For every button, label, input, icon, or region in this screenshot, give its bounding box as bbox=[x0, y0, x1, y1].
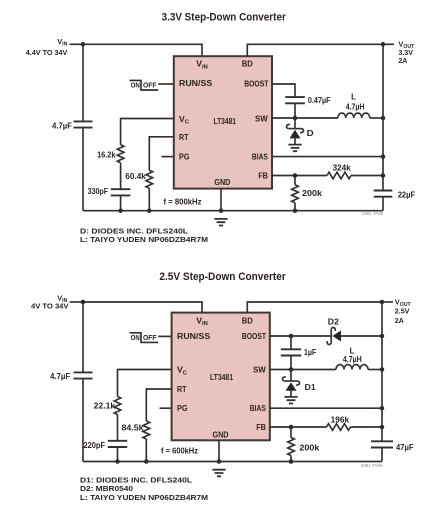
svg-text:BOOST: BOOST bbox=[244, 79, 269, 89]
wire FB left 2 bbox=[270, 426, 327, 428]
wire 22.1k to 220pF bbox=[117, 415, 119, 441]
ground D1 bbox=[284, 397, 297, 404]
svg-text:BIAS: BIAS bbox=[252, 152, 268, 162]
svg-text:2A: 2A bbox=[395, 316, 405, 325]
svg-text:4.7µF: 4.7µF bbox=[52, 122, 72, 131]
capacitor 330pF bbox=[111, 189, 131, 195]
resistor 22.1k bbox=[114, 397, 121, 415]
wire RT 2 bbox=[146, 389, 171, 421]
svg-text:324k: 324k bbox=[333, 163, 352, 172]
wire L to VOUT rail bbox=[370, 117, 383, 119]
svg-text:L: L bbox=[351, 92, 356, 101]
svg-text:0.47µF: 0.47µF bbox=[308, 96, 331, 105]
svg-text:4.7µF: 4.7µF bbox=[50, 372, 70, 381]
svg-text:FB: FB bbox=[258, 171, 268, 181]
wire VIN left rail upper 2 bbox=[82, 302, 84, 372]
node VIN input 2 bbox=[81, 300, 86, 305]
svg-text:1µF: 1µF bbox=[304, 348, 317, 357]
svg-text:PG: PG bbox=[177, 403, 188, 413]
wire VOUT stub 2 bbox=[382, 301, 393, 303]
node SW out 2 bbox=[380, 367, 385, 372]
node RT rail bbox=[147, 208, 152, 213]
svg-text:RT: RT bbox=[177, 384, 187, 394]
capacitor 220pF bbox=[108, 441, 127, 447]
svg-text:BIAS: BIAS bbox=[250, 403, 266, 413]
capacitor 0.47uF boost bbox=[285, 97, 305, 103]
node VOUT top 2 bbox=[380, 300, 385, 305]
wire boost cap lower bbox=[290, 356, 292, 370]
wire 16.2k to 330pF bbox=[120, 163, 122, 189]
svg-text:60.4k: 60.4k bbox=[125, 172, 146, 181]
node SW out bbox=[381, 116, 386, 121]
node BIAS 2 bbox=[380, 406, 385, 411]
svg-text:84.5k: 84.5k bbox=[122, 424, 145, 433]
svg-text:4.7µH: 4.7µH bbox=[343, 355, 362, 364]
svg-text:f = 600kHz: f = 600kHz bbox=[161, 447, 198, 456]
wire VIN left rail lower bbox=[82, 128, 84, 211]
svg-text:3481 TA05: 3481 TA05 bbox=[362, 211, 384, 216]
node FB out bbox=[381, 173, 386, 178]
wire VIN top rail 2 bbox=[83, 302, 202, 313]
svg-text:BD: BD bbox=[242, 315, 253, 325]
wire SW bbox=[272, 117, 338, 119]
capacitor 1uF boost bbox=[281, 349, 301, 355]
wire 84.5k to rail bbox=[145, 439, 147, 462]
wire VIN stub 2 bbox=[70, 301, 84, 303]
node SW boost bbox=[293, 116, 298, 121]
wire bottom rail 2 bbox=[83, 461, 382, 463]
wire FB to 200k 2 bbox=[290, 427, 292, 438]
switch label ON/OFF 2 bbox=[130, 333, 159, 343]
wire FB to 200k bbox=[294, 176, 296, 185]
wire VIN stub bbox=[70, 43, 84, 45]
svg-text:ON: ON bbox=[131, 80, 140, 89]
svg-text:4.4V TO 34V: 4.4V TO 34V bbox=[26, 48, 68, 57]
svg-text:D: D bbox=[307, 129, 314, 138]
wire 200k to rail bbox=[294, 203, 296, 211]
svg-text:RUN/SS: RUN/SS bbox=[177, 331, 210, 341]
wire VOUT rail bbox=[382, 44, 384, 190]
svg-text:2.5V: 2.5V bbox=[395, 307, 410, 316]
wire RT bbox=[149, 137, 174, 171]
wire VC to RC network 2 bbox=[118, 370, 172, 397]
svg-text:47µF: 47µF bbox=[396, 443, 414, 452]
diode D catch bbox=[287, 118, 304, 145]
svg-text:196k: 196k bbox=[331, 415, 350, 424]
svg-text:4V TO 34V: 4V TO 34V bbox=[31, 301, 69, 310]
wire 47uF to rail bbox=[381, 448, 383, 462]
ground GND pin bbox=[214, 219, 227, 226]
svg-text:BOOST: BOOST bbox=[242, 331, 267, 341]
svg-text:4.7µH: 4.7µH bbox=[346, 102, 365, 111]
node D2 out bbox=[380, 334, 385, 339]
wire VC to RC network bbox=[121, 119, 174, 145]
wire PG stub bbox=[162, 156, 174, 158]
diode D1 catch bbox=[283, 370, 300, 397]
wire 60.4k to rail bbox=[148, 188, 150, 210]
svg-text:OFF: OFF bbox=[143, 333, 157, 342]
resistor 60.4k bbox=[146, 170, 153, 188]
wire RUN/SS bbox=[158, 83, 174, 85]
wire 220pF to rail 2 bbox=[117, 447, 119, 462]
node 200k rail 2 bbox=[289, 459, 294, 464]
wire 200k to rail 2 bbox=[290, 456, 292, 462]
IC U2 LT3481 bbox=[172, 313, 270, 441]
diode D2 boost bbox=[327, 328, 341, 345]
svg-text:RT: RT bbox=[179, 132, 189, 142]
wire VOUT rail 2 bbox=[381, 302, 383, 441]
node VOUT top bbox=[381, 42, 386, 47]
svg-text:f = 800kHz: f = 800kHz bbox=[164, 197, 202, 206]
svg-text:OFF: OFF bbox=[143, 81, 157, 90]
wire FB left bbox=[272, 175, 327, 177]
IC U1 LT3481 bbox=[174, 56, 272, 188]
wire bottom rail bbox=[83, 210, 383, 212]
wire FB right bbox=[351, 175, 383, 177]
wire VIN left rail lower 2 bbox=[82, 379, 84, 462]
capacitor 47uF output bbox=[371, 441, 393, 447]
node FB out 2 bbox=[380, 425, 385, 430]
node FB 2 bbox=[289, 425, 294, 430]
svg-text:LT3481: LT3481 bbox=[210, 372, 233, 382]
node BOOST junction bbox=[289, 334, 294, 339]
wire boost cap to SW bbox=[294, 103, 296, 118]
wire BIAS 2 bbox=[270, 407, 382, 409]
resistor 200k 2 bbox=[288, 438, 295, 456]
resistor 196k bbox=[327, 424, 351, 431]
switch label ON/OFF bbox=[130, 80, 159, 90]
node VC rail bbox=[118, 208, 123, 213]
wire L to VOUT rail 2 bbox=[368, 369, 382, 371]
wire boost junction to D2 bbox=[291, 335, 331, 337]
node 200k rail bbox=[293, 208, 298, 213]
capacitor 22uF output bbox=[374, 191, 393, 197]
svg-text:220pF: 220pF bbox=[84, 441, 106, 450]
ground D bbox=[288, 145, 301, 152]
node BIAS bbox=[381, 154, 386, 159]
wire BOOST 2 bbox=[270, 335, 291, 337]
svg-text:PG: PG bbox=[179, 152, 190, 162]
svg-text:SW: SW bbox=[255, 113, 269, 123]
svg-text:2.5V Step-Down Converter: 2.5V Step-Down Converter bbox=[159, 271, 286, 283]
wire SW 2 bbox=[270, 369, 336, 371]
capacitor 4.7uF input 2 bbox=[74, 372, 93, 378]
node RT rail 2 bbox=[144, 459, 149, 464]
wire GND pin 2 bbox=[218, 440, 220, 461]
wire BIAS bbox=[272, 156, 383, 158]
svg-text:D2: MBR0540: D2: MBR0540 bbox=[80, 484, 133, 493]
wire FB right 2 bbox=[351, 426, 383, 428]
resistor 16.2k bbox=[117, 145, 124, 163]
svg-text:16.2k: 16.2k bbox=[97, 151, 116, 160]
svg-text:D2: D2 bbox=[328, 318, 340, 327]
ground GND pin 2 bbox=[212, 470, 225, 477]
resistor 324k bbox=[327, 172, 351, 179]
svg-text:SW: SW bbox=[253, 365, 267, 375]
wire boost cap upper bbox=[290, 336, 292, 349]
svg-text:FB: FB bbox=[256, 422, 266, 432]
svg-text:200k: 200k bbox=[302, 189, 323, 198]
wire BD to VOUT 2 bbox=[247, 302, 382, 313]
node GND rail 2 bbox=[217, 459, 222, 464]
resistor 84.5k bbox=[143, 421, 150, 439]
svg-text:BD: BD bbox=[242, 59, 253, 69]
svg-text:200k: 200k bbox=[299, 443, 320, 452]
wire PG stub 2 bbox=[160, 407, 172, 409]
node FB bbox=[293, 173, 298, 178]
wire GND pin bbox=[220, 189, 222, 211]
wire 22uF to rail bbox=[382, 197, 384, 211]
inductor L 4.7uH 2 bbox=[336, 365, 368, 370]
svg-text:22µF: 22µF bbox=[398, 190, 416, 199]
svg-text:ON: ON bbox=[131, 333, 140, 342]
svg-text:3481 TA06: 3481 TA06 bbox=[361, 463, 383, 468]
capacitor 4.7uF input bbox=[74, 121, 93, 127]
svg-text:GND: GND bbox=[214, 177, 230, 187]
node VIN input bbox=[81, 42, 86, 47]
svg-text:L: TAIYO YUDEN NP06DZB4R7M: L: TAIYO YUDEN NP06DZB4R7M bbox=[80, 235, 208, 244]
resistor 200k bbox=[292, 185, 299, 203]
svg-text:LT3481: LT3481 bbox=[214, 116, 237, 126]
svg-text:2A: 2A bbox=[398, 56, 408, 65]
wire RUN/SS 2 bbox=[158, 335, 171, 337]
wire D2 to VOUT rail bbox=[341, 335, 382, 337]
wire VIN left rail upper bbox=[82, 44, 84, 121]
node SW boost 2 bbox=[289, 367, 294, 372]
wire VIN top rail bbox=[83, 44, 202, 56]
wire 330pF to rail bbox=[120, 195, 122, 210]
svg-text:22.1k: 22.1k bbox=[94, 402, 116, 411]
inductor L 4.7uH bbox=[338, 113, 370, 118]
wire BD to VOUT bbox=[247, 44, 383, 56]
svg-text:3.3V Step-Down Converter: 3.3V Step-Down Converter bbox=[162, 11, 287, 23]
wire VOUT stub bbox=[383, 43, 394, 45]
svg-text:330pF: 330pF bbox=[88, 187, 109, 196]
svg-text:D1: D1 bbox=[305, 383, 317, 392]
wire BOOST to cap bbox=[272, 84, 295, 97]
node VC rail 2 bbox=[115, 459, 120, 464]
svg-text:RUN/SS: RUN/SS bbox=[179, 78, 212, 88]
svg-text:GND: GND bbox=[213, 429, 229, 439]
svg-text:L: TAIYO YUDEN NP06DZB4R7M: L: TAIYO YUDEN NP06DZB4R7M bbox=[80, 493, 208, 502]
node GND rail bbox=[219, 208, 224, 213]
